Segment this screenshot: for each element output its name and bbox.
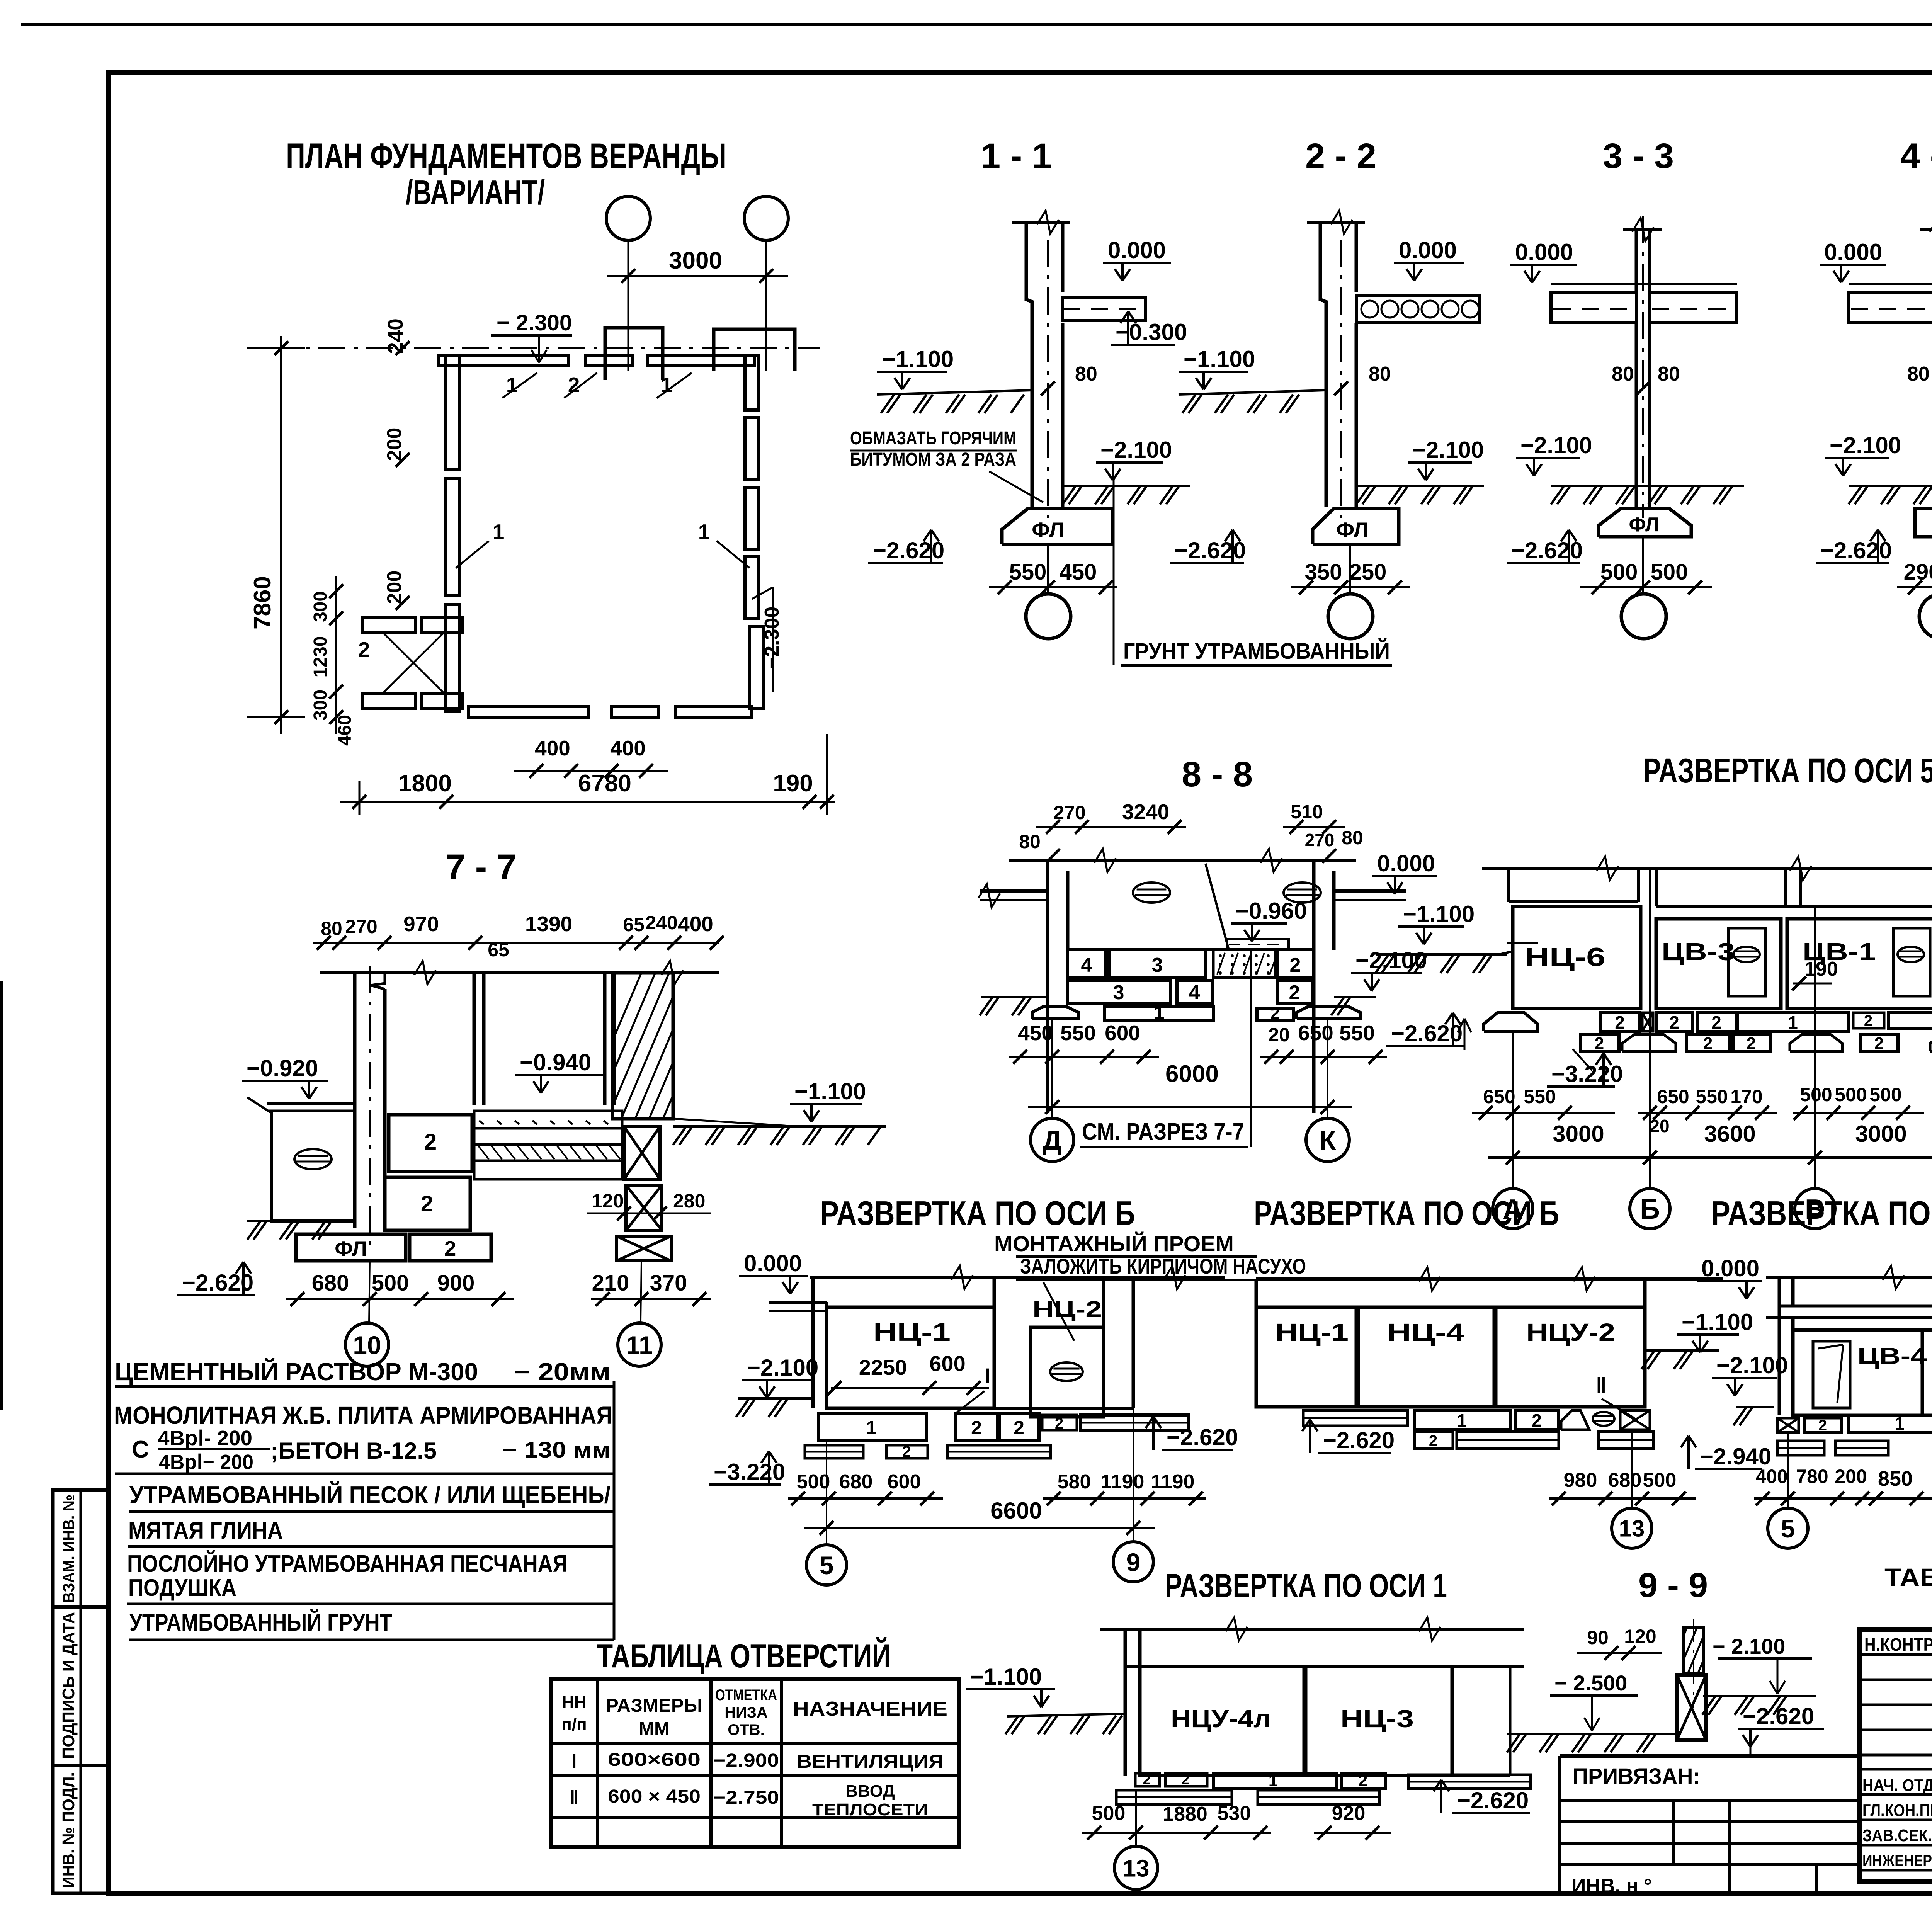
section 2-2 hollow core slab: [1356, 296, 1480, 323]
svg-text:2: 2: [444, 1236, 456, 1260]
section 8-8 axis circle К: [1306, 1118, 1349, 1162]
svg-text:550: 550: [1696, 1086, 1728, 1107]
section 1-1 wall top block: [1026, 222, 1032, 394]
razvertka osi B1 axis circle 9: [1113, 1542, 1153, 1582]
razvertka osi 5 left ground slope: [1499, 951, 1513, 954]
svg-text:ВЕНТИЛЯЦИЯ: ВЕНТИЛЯЦИЯ: [797, 1752, 944, 1772]
plan bottom strip 1: [469, 707, 588, 717]
razvertka osi 1 upper band: [1124, 1629, 1127, 1667]
plan bottom strip 3: [675, 707, 752, 717]
svg-text:2: 2: [1703, 1034, 1713, 1053]
svg-text:0.000: 0.000: [1701, 1255, 1759, 1281]
svg-text:3 - 3: 3 - 3: [1603, 136, 1674, 176]
svg-text:ТАБЛИЦУ ОБОЗНАЧЕНИЙ СМ. НА: ТАБЛИЦУ ОБОЗНАЧЕНИЙ СМ. НА ЛИСТЕ: [1884, 1563, 1932, 1592]
svg-text:−0.300: −0.300: [1116, 319, 1187, 345]
svg-text:2: 2: [1055, 1415, 1063, 1432]
plan top strip 2: [586, 356, 633, 366]
svg-text:190: 190: [1804, 958, 1838, 980]
svg-text:НЦ-1: НЦ-1: [1275, 1318, 1349, 1346]
svg-text:550: 550: [1009, 560, 1047, 585]
section 7-7 hatched masonry column: [612, 973, 673, 1119]
svg-text:ВЗАМ. ИНВ. №: ВЗАМ. ИНВ. №: [60, 1495, 78, 1603]
svg-text:500: 500: [1643, 1469, 1677, 1492]
svg-text:Н.КОНТР: Н.КОНТР: [1864, 1634, 1932, 1655]
svg-text:4: 4: [1189, 981, 1200, 1004]
section 8-8 footing trapezoid left: [1032, 1007, 1078, 1019]
section 8-8 axis circle Д: [1031, 1118, 1074, 1162]
svg-text:65: 65: [488, 939, 509, 961]
svg-text:;БЕТОН В-12.5: ;БЕТОН В-12.5: [270, 1438, 437, 1464]
svg-text:1880: 1880: [1163, 1803, 1207, 1825]
svg-text:ГРУНТ УТРАМБОВАННЫЙ: ГРУНТ УТРАМБОВАННЫЙ: [1123, 639, 1390, 664]
razvertka osi 1 top line: [1100, 1628, 1524, 1631]
svg-text:−1.100: −1.100: [1184, 346, 1255, 372]
svg-text:2: 2: [1669, 1012, 1679, 1032]
section 3-3 floor slabs both sides: [1551, 292, 1636, 323]
section 7-7 axis circle 11: [618, 1323, 661, 1366]
svg-text:−2.620: −2.620: [1174, 537, 1246, 563]
plan right wall strips: [745, 356, 759, 410]
svg-text:80: 80: [1369, 363, 1391, 385]
svg-text:2: 2: [1429, 1432, 1437, 1449]
svg-text:80: 80: [321, 918, 342, 939]
svg-text:ОТМЕТКА: ОТМЕТКА: [715, 1687, 777, 1704]
svg-text:1390: 1390: [525, 912, 572, 936]
svg-text:0.000: 0.000: [1377, 850, 1435, 876]
svg-text:УТРАМБОВАННЫЙ ПЕСОК / ИЛИ ЩЕ: УТРАМБОВАННЫЙ ПЕСОК / ИЛИ ЩЕБЕНЬ/: [129, 1481, 611, 1509]
svg-text:ТАБЛИЦА ОТВЕРСТИЙ: ТАБЛИЦА ОТВЕРСТИЙ: [597, 1637, 891, 1675]
svg-text:2: 2: [421, 1191, 433, 1216]
section 2-2 foundation FL: [1313, 509, 1399, 544]
svg-text:−2.100: −2.100: [1520, 432, 1592, 458]
svg-text:1190: 1190: [1101, 1471, 1145, 1493]
svg-text:4ВрⅠ− 200: 4ВрⅠ− 200: [159, 1451, 253, 1474]
notes right border line: [613, 1381, 616, 1640]
razvertka osi B2 footing row 1: [1303, 1410, 1408, 1426]
razvertka osi B2 axis circle 13: [1612, 1508, 1652, 1548]
svg-text:370: 370: [650, 1270, 687, 1296]
razvertka osi G1 axis circle 5: [1768, 1508, 1808, 1548]
svg-text:270: 270: [345, 916, 377, 937]
svg-text:−2.620: −2.620: [1743, 1703, 1814, 1729]
section 7-7 wall verticals: [353, 973, 357, 1228]
section 1-1 floor slab: [1063, 298, 1146, 321]
svg-text:7860: 7860: [249, 576, 276, 629]
svg-text:СМ. РАЗРЕЗ 7-7: СМ. РАЗРЕЗ 7-7: [1082, 1119, 1244, 1145]
privyazan grid: [1560, 1799, 1859, 1802]
razvertka osi 5 axis circle В: [1795, 1189, 1835, 1229]
svg-text:Ⅰ: Ⅰ: [571, 1752, 577, 1772]
svg-text:600: 600: [929, 1351, 965, 1376]
svg-text:13: 13: [1619, 1516, 1645, 1542]
svg-text:I: I: [985, 1364, 991, 1388]
svg-text:7 - 7: 7 - 7: [446, 847, 517, 887]
svg-text:К: К: [1320, 1125, 1336, 1155]
svg-text:400: 400: [610, 736, 646, 760]
svg-text:510: 510: [1291, 801, 1323, 823]
svg-text:НАЧ. ОТД: НАЧ. ОТД: [1862, 1776, 1932, 1795]
section 8-8 main walls: [1046, 861, 1049, 1113]
razvertka osi G1 footing row 2: [1777, 1441, 1824, 1455]
svg-text:80: 80: [1019, 831, 1041, 852]
svg-text:1: 1: [1895, 1413, 1905, 1434]
svg-text:2: 2: [1711, 1012, 1721, 1032]
svg-text:2: 2: [971, 1417, 982, 1439]
svg-text:0.000: 0.000: [744, 1250, 802, 1276]
razvertka osi 5 left trapezoid footing: [1484, 1013, 1537, 1031]
svg-text:650: 650: [1657, 1086, 1689, 1107]
svg-text:120: 120: [1624, 1626, 1656, 1647]
razvertka osi 5 axis circle Б: [1630, 1189, 1670, 1229]
svg-text:2: 2: [1615, 1012, 1625, 1032]
razvertka osi 5 footing row 2: [1580, 1034, 1619, 1051]
svg-text:−0.920: −0.920: [247, 1055, 318, 1081]
section 8-8 right slab stubs: [1334, 889, 1406, 893]
razvertka osi 5 panel ЦВ-3 with door: [1656, 919, 1781, 1009]
svg-text:ТЕПЛОСЕТИ: ТЕПЛОСЕТИ: [812, 1800, 928, 1819]
razvertka osi 5 axis circle А: [1493, 1189, 1533, 1229]
section 7-7 door frame verticals: [473, 973, 476, 1105]
svg-text:ПОДПИСЬ И ДАТА: ПОДПИСЬ И ДАТА: [59, 1612, 78, 1759]
svg-text:ОБМАЗАТЬ ГОРЯЧИМ: ОБМАЗАТЬ ГОРЯЧИМ: [850, 428, 1016, 449]
svg-text:ИНВ. № ПОДЛ.: ИНВ. № ПОДЛ.: [59, 1772, 78, 1888]
svg-text:4 - 4: 4 - 4: [1900, 136, 1932, 176]
plan right lower offset strip: [750, 626, 764, 709]
svg-text:5: 5: [820, 1551, 834, 1580]
svg-text:−1.100: −1.100: [1682, 1309, 1753, 1335]
svg-text:2: 2: [1270, 1004, 1280, 1023]
svg-text:ЦВ-3: ЦВ-3: [1662, 938, 1735, 966]
plan left wall strips: [446, 356, 460, 469]
svg-text:170: 170: [1730, 1086, 1762, 1107]
svg-text:900: 900: [437, 1270, 475, 1296]
section 8-8 stone in wall: [1133, 883, 1170, 903]
svg-text:200: 200: [383, 571, 406, 604]
razvertka osi B2 footing row 2: [1415, 1432, 1453, 1449]
section 8-8 left ground line: [981, 996, 1048, 998]
razvertka osi G1 footing row 1: [1777, 1418, 1799, 1432]
svg-text:1: 1: [698, 520, 710, 544]
section 7-7 crossed boxes column: [624, 1126, 660, 1179]
svg-text:УТРАМБОВАННЫЙ ГРУНТ: УТРАМБОВАННЫЙ ГРУНТ: [129, 1609, 392, 1636]
svg-text:2: 2: [1143, 1772, 1151, 1788]
section 9-9 crossed foundation box: [1677, 1675, 1706, 1740]
svg-text:2: 2: [1014, 1417, 1024, 1439]
svg-text:3000: 3000: [669, 247, 722, 274]
plan small pad blocks lower: [362, 694, 415, 709]
plan small pad blocks upper: [362, 617, 415, 632]
svg-text:6780: 6780: [578, 770, 631, 797]
svg-text:3000: 3000: [1855, 1121, 1906, 1147]
razvertka osi 5 top line: [1482, 867, 1932, 870]
svg-text:500: 500: [1800, 1084, 1832, 1105]
svg-text:БИТУМОМ ЗА 2 РАЗА: БИТУМОМ ЗА 2 РАЗА: [850, 449, 1016, 470]
svg-text:680: 680: [312, 1270, 349, 1296]
svg-text:МОНТАЖНЫЙ ПРОЕМ: МОНТАЖНЫЙ ПРОЕМ: [994, 1231, 1234, 1256]
svg-text:ПРИВЯЗАН:: ПРИВЯЗАН:: [1573, 1764, 1700, 1789]
razvertka osi B1 top line: [810, 1276, 1225, 1279]
svg-text:850: 850: [1878, 1467, 1913, 1490]
section 7-7 top line: [320, 971, 719, 974]
svg-text:300: 300: [310, 690, 331, 721]
section 7-7 left wall block with stone: [271, 1111, 355, 1221]
svg-text:680: 680: [1608, 1469, 1642, 1492]
plan top strip 3: [648, 356, 754, 366]
razvertka osi B1 footing row 2: [805, 1445, 863, 1458]
svg-text:НЦ-3: НЦ-3: [1340, 1705, 1414, 1733]
svg-text:8 - 8: 8 - 8: [1182, 755, 1253, 794]
section 1-1 axis circle: [1026, 594, 1071, 639]
svg-text:680: 680: [839, 1471, 873, 1493]
svg-text:РАЗВЕРТКА ПО ОСИ Б: РАЗВЕРТКА ПО ОСИ Б: [820, 1194, 1135, 1232]
svg-text:ПОДУШКА: ПОДУШКА: [128, 1575, 236, 1601]
plan vertical dim line 7860: [280, 336, 282, 734]
section 7-7 axis circle 10: [345, 1323, 389, 1366]
svg-text:Ⅱ: Ⅱ: [1596, 1373, 1607, 1398]
svg-text:2: 2: [358, 638, 370, 662]
left stamp column boxes: [53, 1490, 109, 1893]
svg-text:1: 1: [493, 520, 505, 544]
razvertka osi B1 walls and panels: [811, 1277, 815, 1408]
svg-text:970: 970: [403, 912, 439, 936]
section 4-4 foundation block 2: [1915, 509, 1932, 537]
razvertka osi B2 panels: [1255, 1279, 1258, 1407]
svg-text:200: 200: [383, 428, 406, 461]
svg-text:80: 80: [1658, 363, 1680, 385]
svg-text:2: 2: [1532, 1410, 1542, 1430]
razvertka osi 5 upper band: [1507, 868, 1510, 902]
plan bottom strip 2: [611, 707, 658, 717]
svg-text:550: 550: [1060, 1021, 1096, 1045]
svg-text:400: 400: [678, 912, 713, 936]
svg-text:1: 1: [1154, 1003, 1165, 1023]
openings table grid: [551, 1679, 959, 1847]
svg-text:2: 2: [1864, 1012, 1872, 1029]
svg-text:ПЛАН ФУНДАМЕНТОВ ВЕРАНДЫ: ПЛАН ФУНДАМЕНТОВ ВЕРАНДЫ: [286, 136, 726, 176]
svg-text:ИНВ. н °: ИНВ. н °: [1571, 1875, 1652, 1897]
svg-text:3240: 3240: [1122, 800, 1169, 824]
svg-text:9 - 9: 9 - 9: [1638, 1566, 1708, 1605]
svg-text:500: 500: [372, 1270, 409, 1296]
svg-text:ФЛ: ФЛ: [1336, 518, 1368, 542]
svg-text:С: С: [132, 1436, 149, 1463]
section 7-7 ground hatch below left block: [247, 1220, 355, 1222]
plan pier 1: [605, 328, 663, 380]
svg-text:−2.620: −2.620: [1457, 1787, 1529, 1813]
razvertka osi B1 footing row 1: [818, 1413, 926, 1440]
svg-text:280: 280: [673, 1190, 705, 1212]
section 1-1 foundation FL: [1002, 509, 1113, 544]
svg-text:− 20мм: − 20мм: [514, 1358, 611, 1386]
svg-text:−2.100: −2.100: [1830, 432, 1901, 458]
svg-text:2: 2: [1290, 954, 1301, 976]
section 8-8 block row 2: [1068, 981, 1171, 1003]
svg-text:1800: 1800: [398, 770, 452, 797]
title block outer box: [1859, 1629, 1932, 1882]
svg-text:ФЛ: ФЛ: [1629, 514, 1660, 536]
svg-text:НЦ-2: НЦ-2: [1032, 1297, 1102, 1322]
svg-text:210: 210: [592, 1270, 629, 1296]
svg-text:НАЗНАЧЕНИЕ: НАЗНАЧЕНИЕ: [793, 1698, 947, 1720]
svg-text:МЯТАЯ ГЛИНА: МЯТАЯ ГЛИНА: [128, 1517, 283, 1544]
section 4-4 floor slabs both sides: [1849, 292, 1932, 323]
svg-text:530: 530: [1218, 1802, 1251, 1825]
svg-text:400: 400: [535, 736, 570, 760]
plan pad cross leaders: [383, 632, 444, 694]
svg-text:600 × 450: 600 × 450: [608, 1786, 701, 1807]
plan pier 2: [714, 329, 795, 371]
section 7-7 block 2 lower: [385, 1177, 470, 1230]
svg-text:НЦ-4: НЦ-4: [1387, 1318, 1465, 1346]
section 7-7 FL footing box: [296, 1234, 406, 1261]
svg-text:1230: 1230: [310, 636, 331, 678]
svg-text:1: 1: [1457, 1410, 1467, 1430]
svg-text:920: 920: [1332, 1802, 1366, 1825]
svg-text:0.000: 0.000: [1399, 237, 1457, 263]
razvertka osi 1 axis circle 13: [1114, 1846, 1158, 1889]
section 8-8 top line: [1009, 859, 1356, 862]
plan top axis dash-dot line: [270, 347, 820, 349]
plan axis circle top 2: [744, 196, 788, 240]
svg-text:−2.100: −2.100: [1355, 947, 1427, 973]
svg-text:350: 350: [1305, 560, 1342, 585]
svg-text:−2.100: −2.100: [1412, 437, 1484, 463]
section 3-3 axis circle: [1621, 594, 1666, 639]
svg-text:1: 1: [1269, 1771, 1278, 1790]
svg-text:2: 2: [902, 1443, 911, 1460]
svg-text:240: 240: [645, 912, 677, 934]
svg-text:−2.620: −2.620: [1167, 1424, 1238, 1450]
svg-text:НИЗА: НИЗА: [724, 1704, 768, 1721]
svg-text:80: 80: [1907, 363, 1930, 385]
svg-text:450: 450: [1060, 560, 1097, 585]
svg-text:20: 20: [1268, 1024, 1290, 1046]
svg-text:4ВрⅠ- 200: 4ВрⅠ- 200: [158, 1427, 252, 1450]
svg-text:НЦУ-4л: НЦУ-4л: [1171, 1705, 1271, 1733]
svg-text:780: 780: [1796, 1466, 1828, 1487]
section 8-8 sand dotted strip: [1213, 950, 1275, 978]
svg-text:500: 500: [1092, 1802, 1126, 1825]
svg-text:550: 550: [1339, 1021, 1375, 1045]
svg-text:−3.220: −3.220: [714, 1459, 785, 1485]
svg-text:ИНЖЕНЕР: ИНЖЕНЕР: [1862, 1851, 1932, 1870]
svg-text:−2.750: −2.750: [713, 1787, 779, 1808]
section 2-2 wall top block: [1320, 222, 1326, 394]
razvertka osi G1 top band: [1766, 1276, 1932, 1279]
svg-text:600: 600: [888, 1471, 921, 1493]
svg-text:− 2.500: − 2.500: [1554, 1671, 1627, 1695]
section 8-8 block row 1: [1068, 950, 1106, 978]
svg-text:НН: НН: [562, 1693, 587, 1712]
svg-text:ФЛ: ФЛ: [335, 1236, 367, 1260]
svg-text:550: 550: [1524, 1086, 1556, 1107]
svg-text:1190: 1190: [1151, 1471, 1195, 1493]
section 2-2 axis circle: [1328, 594, 1373, 639]
section 9-9 left ground: [1507, 1733, 1677, 1735]
svg-text:65: 65: [623, 914, 645, 935]
svg-text:РАЗВЕРТКА ПО ОСИ Г: РАЗВЕРТКА ПО ОСИ Г: [1711, 1194, 1932, 1232]
plan axis circle top 1: [606, 196, 650, 240]
section 7-7 floor layers: [474, 1111, 622, 1128]
svg-text:2: 2: [1874, 1034, 1884, 1053]
svg-text:−2.100: −2.100: [1716, 1352, 1788, 1378]
svg-text:НЦ-1: НЦ-1: [873, 1318, 951, 1346]
svg-text:5: 5: [1781, 1514, 1795, 1543]
svg-text:2: 2: [1358, 1771, 1367, 1790]
svg-text:НЦ-6: НЦ-6: [1524, 942, 1605, 972]
section 3-3 upper wall: [1635, 230, 1638, 292]
svg-text:− 2.300: − 2.300: [497, 310, 572, 335]
svg-text:190: 190: [773, 770, 813, 797]
svg-text:0.000: 0.000: [1824, 239, 1882, 265]
section 9-9 hatched wall stub: [1683, 1628, 1703, 1673]
svg-text:460: 460: [335, 715, 355, 746]
svg-text:−1.100: −1.100: [1403, 901, 1475, 927]
svg-text:РАЗВЕРТКА ПО ОСИ 5: РАЗВЕРТКА ПО ОСИ 5: [1643, 752, 1932, 790]
svg-text:1: 1: [1788, 1012, 1798, 1032]
section 3-3 lower wall column: [1635, 323, 1638, 507]
svg-text:3: 3: [1113, 981, 1124, 1004]
svg-text:600×600: 600×600: [608, 1750, 701, 1770]
svg-text:2: 2: [1289, 981, 1300, 1004]
svg-text:−2.620: −2.620: [873, 537, 944, 563]
razvertka osi B2 top line: [1256, 1277, 1723, 1281]
section 7-7 block 2 upper: [389, 1115, 472, 1172]
svg-text:2: 2: [1595, 1034, 1604, 1053]
svg-text:− 130 мм: − 130 мм: [502, 1437, 611, 1463]
razvertka osi 1 panels: [1124, 1667, 1127, 1776]
svg-text:10: 10: [353, 1331, 381, 1359]
svg-text:ЦЕМЕНТНЫЙ РАСТВОР М-300: ЦЕМЕНТНЫЙ РАСТВОР М-300: [115, 1357, 478, 1386]
title block left rows: [1859, 1653, 1932, 1656]
svg-text:4: 4: [1081, 954, 1092, 976]
svg-text:ЦВ-4: ЦВ-4: [1857, 1343, 1927, 1369]
svg-text:980: 980: [1564, 1469, 1597, 1492]
svg-text:20: 20: [1650, 1116, 1669, 1136]
svg-text:300: 300: [310, 591, 331, 622]
svg-text:Ⅱ: Ⅱ: [570, 1787, 579, 1808]
svg-text:2250: 2250: [859, 1355, 907, 1379]
razvertka osi 1 footing row 1: [1135, 1773, 1160, 1786]
section 7-7 footing 2 box: [410, 1234, 491, 1261]
svg-text:ВВОД: ВВОД: [845, 1782, 895, 1801]
svg-text:450: 450: [1018, 1021, 1053, 1045]
svg-text:−1.100: −1.100: [882, 346, 954, 372]
svg-text:3600: 3600: [1704, 1121, 1755, 1147]
razvertka osi 5 footing row 1: [1601, 1013, 1639, 1031]
svg-text:Д: Д: [1043, 1125, 1062, 1155]
svg-text:3000: 3000: [1553, 1121, 1604, 1147]
svg-text:2: 2: [1747, 1034, 1756, 1053]
svg-text:80: 80: [1342, 827, 1363, 849]
sheet outer top edge line: [21, 23, 1932, 26]
svg-text:−2.620: −2.620: [1511, 537, 1583, 563]
svg-text:НЦУ-2: НЦУ-2: [1526, 1318, 1615, 1346]
svg-text:500: 500: [1835, 1084, 1867, 1105]
section 9-9 right ground: [1703, 1695, 1816, 1697]
svg-text:9: 9: [1126, 1548, 1141, 1577]
svg-text:РАЗМЕРЫ: РАЗМЕРЫ: [606, 1696, 702, 1716]
section 3-3 foundation FL: [1599, 509, 1691, 537]
svg-text:ПОСЛОЙНО УТРАМБОВАННАЯ ПЕСЧА: ПОСЛОЙНО УТРАМБОВАННАЯ ПЕСЧАНАЯ: [127, 1550, 568, 1577]
section 8-8 left slab stubs: [980, 889, 1048, 893]
svg-text:−1.100: −1.100: [970, 1664, 1042, 1690]
title block privyazan box: [1560, 1754, 1859, 1758]
svg-text:−0.940: −0.940: [520, 1049, 591, 1075]
svg-text:2: 2: [1818, 1417, 1827, 1434]
svg-text:11: 11: [626, 1331, 653, 1359]
svg-text:6600: 6600: [990, 1498, 1042, 1524]
